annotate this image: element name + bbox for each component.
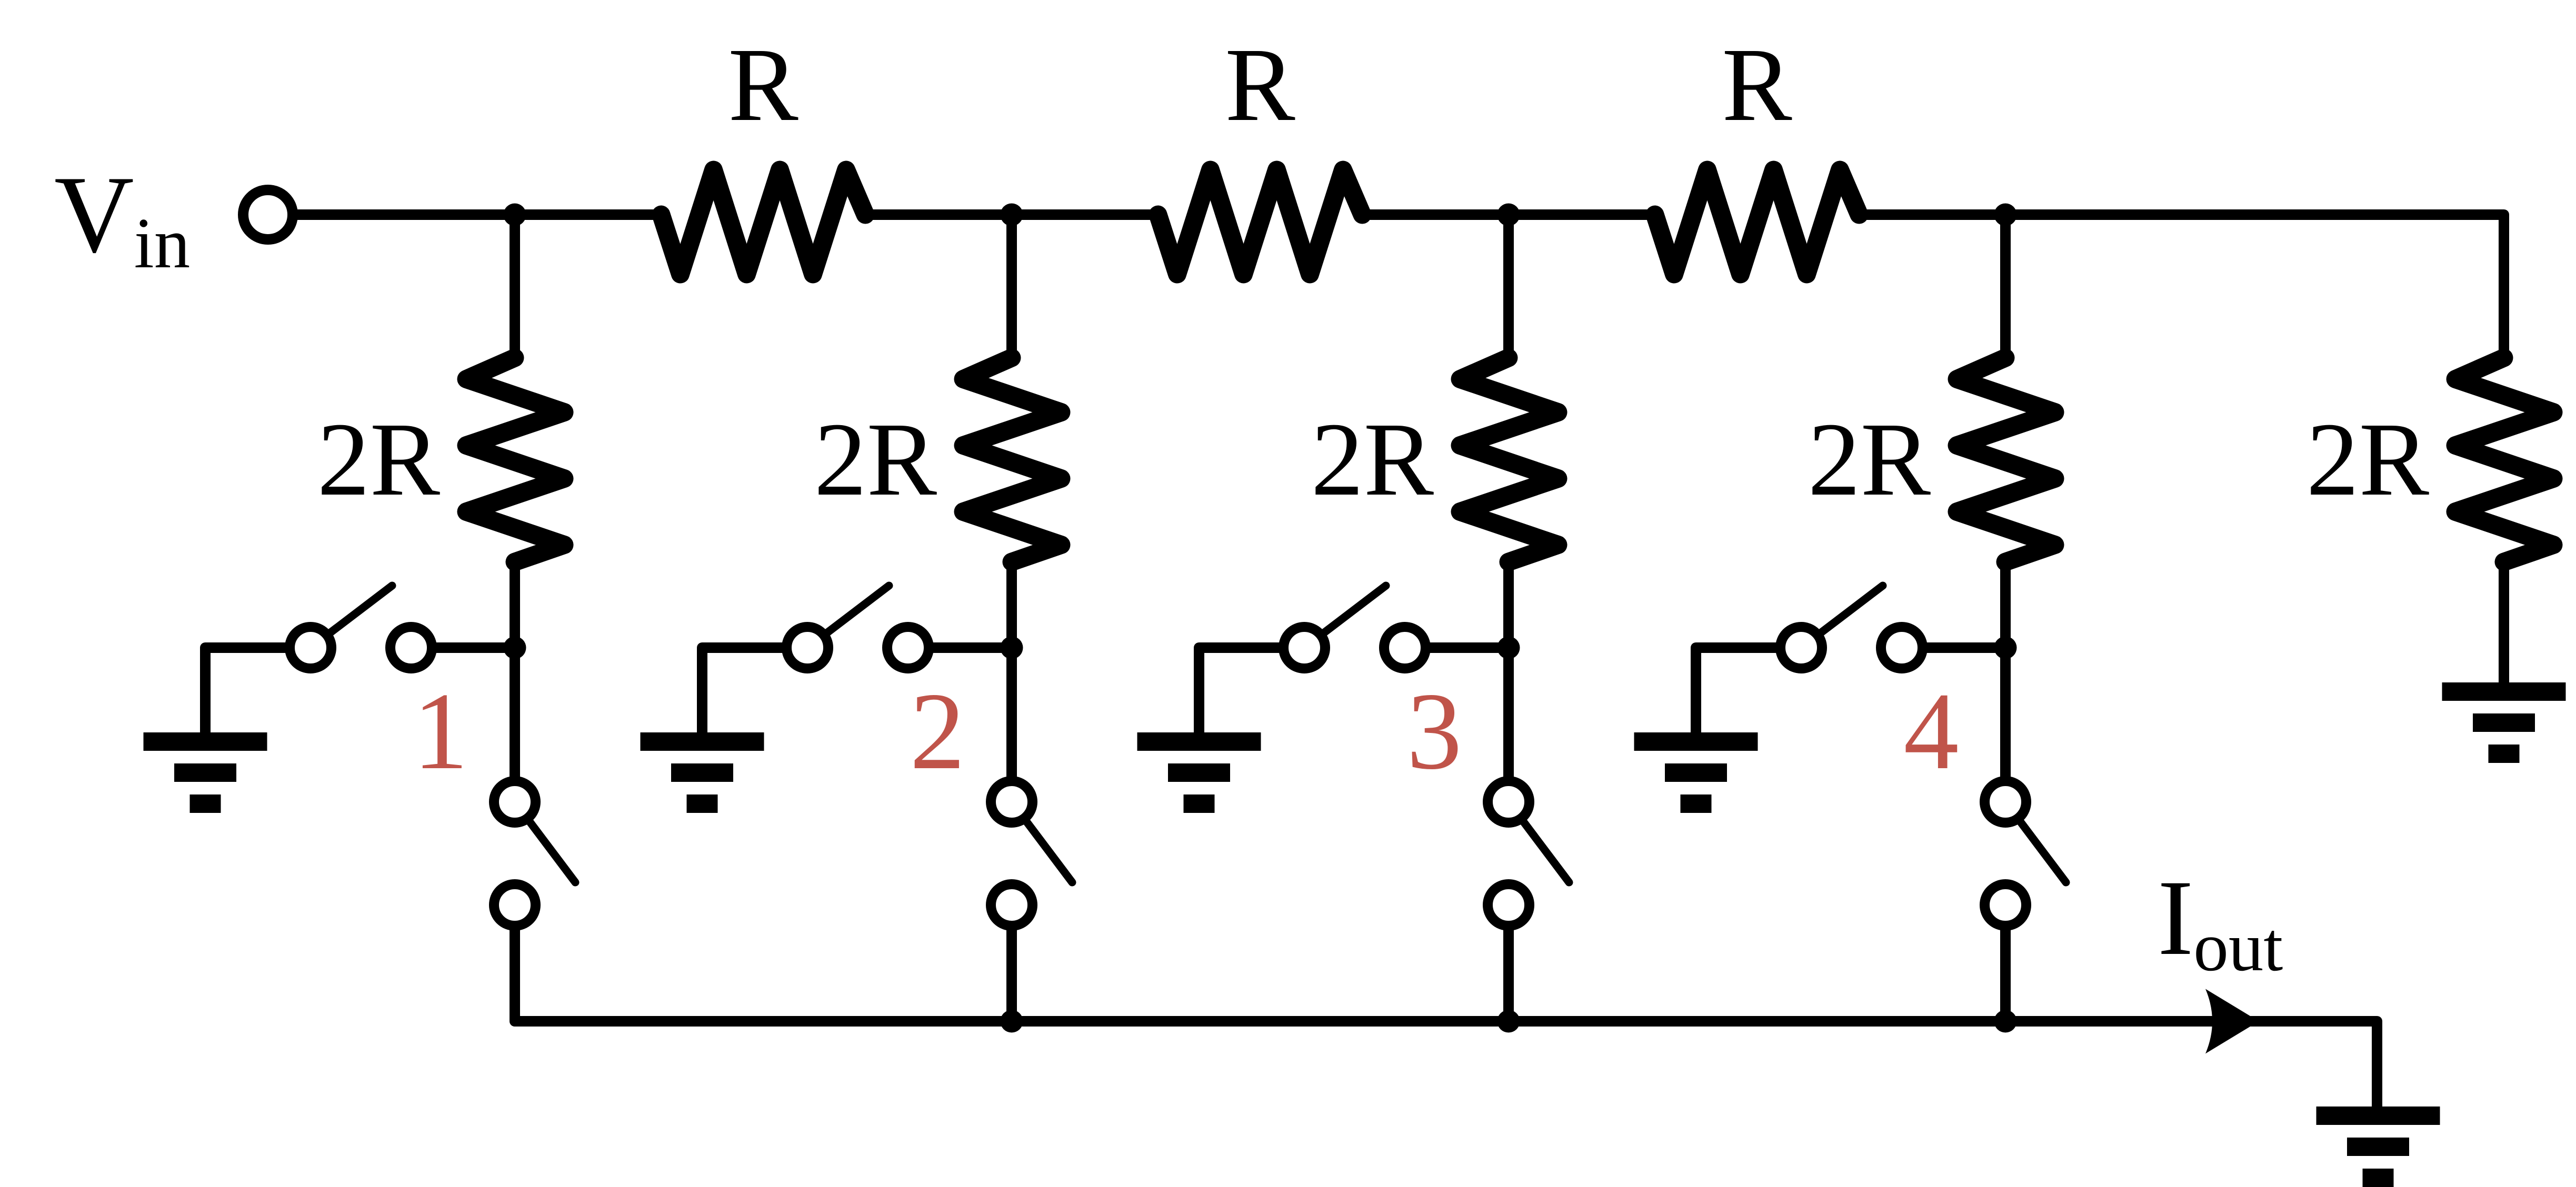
resistor R (1st, between node A and node B) bbox=[661, 170, 865, 274]
terminal Vin (open circle) bbox=[243, 190, 293, 239]
wire: node B down to 2R bbox=[1006, 215, 1017, 363]
wire: junction down to lower switch pivot bbox=[510, 648, 520, 802]
switch contact circle (branch 2 upper) bbox=[887, 627, 929, 669]
switch pivot circle (branch 1 lower) bbox=[494, 781, 536, 823]
wire: junction down to lower switch pivot bbox=[2000, 648, 2011, 802]
wire: junction down to lower switch pivot bbox=[1006, 648, 1017, 802]
resistor R (2nd, between node B and node C) bbox=[1158, 170, 1362, 274]
junction dot (branch 2 on output bus) bbox=[1001, 1010, 1023, 1033]
svg-text:1: 1 bbox=[413, 670, 468, 792]
wire: main top bus segment R2 to R3 bbox=[1360, 209, 1658, 220]
svg-text:2R: 2R bbox=[1808, 401, 1931, 518]
svg-text:2: 2 bbox=[910, 670, 965, 792]
wire: main top bus segment Vin to R1 bbox=[268, 209, 664, 220]
wire: lower contact down to output bus bbox=[1006, 905, 1017, 1021]
resistor 2R (branch 3) bbox=[1460, 358, 1558, 562]
switch lever (branch 1 upper, open) bbox=[311, 586, 392, 648]
wire: 2R bottom to switch junction bbox=[1006, 557, 1017, 648]
junction dot (branch 3 on output bus) bbox=[1497, 1010, 1520, 1033]
wire: node D down to 2R bbox=[2000, 215, 2011, 363]
resistor 2R (terminator, far right) bbox=[2455, 358, 2553, 562]
ground (branch 1 switch) bbox=[144, 732, 267, 813]
switch pivot circle (branch 4 upper) bbox=[1781, 627, 1822, 669]
resistor 2R (branch 4) bbox=[1957, 358, 2055, 562]
wire: switch junction to contact circle bbox=[1405, 642, 1509, 653]
node A junction dot bbox=[504, 204, 526, 226]
svg-text:4: 4 bbox=[1904, 670, 1959, 792]
svg-text:2R: 2R bbox=[814, 401, 937, 518]
wire: switch junction to contact circle bbox=[908, 642, 1012, 653]
node D junction dot bbox=[1994, 204, 2017, 226]
node C junction dot bbox=[1497, 204, 1520, 226]
wire: ground stub to pivot bbox=[205, 648, 311, 732]
svg-text:3: 3 bbox=[1407, 670, 1462, 792]
switch contact circle (branch 4 lower) bbox=[1985, 884, 2026, 926]
wire: lower contact down to output bus bbox=[1503, 905, 1514, 1021]
junction dot (branch 4 on output bus) bbox=[1994, 1010, 2017, 1033]
wire: terminator 2R bottom to ground bbox=[2499, 557, 2509, 682]
switch pivot circle (branch 4 lower) bbox=[1985, 781, 2026, 823]
switch pivot circle (branch 3 upper) bbox=[1284, 627, 1325, 669]
wire: 2R bottom to switch junction bbox=[2000, 557, 2011, 648]
ground (branch 4 switch) bbox=[1634, 732, 1758, 813]
ground (output) bbox=[2317, 1106, 2440, 1187]
resistor 2R (branch 1) bbox=[466, 358, 564, 562]
wire: node A down to 2R bbox=[510, 215, 520, 363]
svg-text:R: R bbox=[728, 27, 798, 143]
wire: junction down to lower switch pivot bbox=[1503, 648, 1514, 802]
switch lever (branch 4 lower, open) bbox=[2005, 802, 2066, 882]
junction dot (branch 1 switch node) bbox=[504, 637, 526, 659]
arrowhead Iout bbox=[2205, 989, 2259, 1054]
switch contact circle (branch 3 upper) bbox=[1384, 627, 1426, 669]
switch lever (branch 2 lower, open) bbox=[1012, 802, 1072, 882]
switch lever (branch 3 lower, open) bbox=[1509, 802, 1569, 882]
wire: main top bus segment R3 to right corner, then drop to 2R terminator bbox=[1856, 215, 2504, 358]
switch contact circle (branch 2 lower) bbox=[991, 884, 1033, 926]
resistor 2R (branch 2) bbox=[963, 358, 1061, 562]
ground (branch 3 switch) bbox=[1137, 732, 1261, 813]
wire: switch junction to contact circle bbox=[411, 642, 515, 653]
wire: ground stub to pivot bbox=[1199, 648, 1304, 732]
wire: lower contact down to output bus bbox=[2000, 905, 2011, 1021]
wire: 2R bottom to switch junction bbox=[510, 557, 520, 648]
node B junction dot bbox=[1001, 204, 1023, 226]
wire: main top bus segment R1 to R2 bbox=[863, 209, 1161, 220]
svg-text:2R: 2R bbox=[317, 401, 441, 518]
switch lever (branch 3 upper, open) bbox=[1304, 586, 1386, 648]
svg-text:R: R bbox=[1225, 27, 1295, 143]
switch pivot circle (branch 2 upper) bbox=[787, 627, 828, 669]
resistor R (3rd, between node C and node D) bbox=[1655, 170, 1859, 274]
junction dot (branch 2 switch node) bbox=[1001, 637, 1023, 659]
switch lever (branch 1 lower, open) bbox=[515, 802, 575, 882]
switch lever (branch 4 upper, open) bbox=[1801, 586, 1883, 648]
wire: ground stub to pivot bbox=[702, 648, 807, 732]
wire: 2R bottom to switch junction bbox=[1503, 557, 1514, 648]
wire: output bus bbox=[515, 1016, 2377, 1106]
switch lever (branch 2 upper, open) bbox=[807, 586, 889, 648]
svg-text:2R: 2R bbox=[2307, 401, 2430, 518]
switch pivot circle (branch 3 lower) bbox=[1488, 781, 1530, 823]
svg-text:R: R bbox=[1722, 27, 1792, 143]
switch pivot circle (branch 1 upper) bbox=[290, 627, 332, 669]
wire: ground stub to pivot bbox=[1696, 648, 1801, 732]
wire: node C down to 2R bbox=[1503, 215, 1514, 363]
wire: switch junction to contact circle bbox=[1902, 642, 2005, 653]
junction dot (branch 4 switch node) bbox=[1994, 637, 2017, 659]
ground (terminator) bbox=[2442, 682, 2566, 763]
switch contact circle (branch 3 lower) bbox=[1488, 884, 1530, 926]
svg-text:2R: 2R bbox=[1311, 401, 1434, 518]
switch contact circle (branch 1 lower) bbox=[494, 884, 536, 926]
wire: lower contact down to output bus bbox=[510, 905, 520, 1021]
junction dot (branch 3 switch node) bbox=[1497, 637, 1520, 659]
switch contact circle (branch 4 upper) bbox=[1881, 627, 1923, 669]
ground (branch 2 switch) bbox=[641, 732, 764, 813]
switch pivot circle (branch 2 lower) bbox=[991, 781, 1033, 823]
switch contact circle (branch 1 upper) bbox=[391, 627, 432, 669]
